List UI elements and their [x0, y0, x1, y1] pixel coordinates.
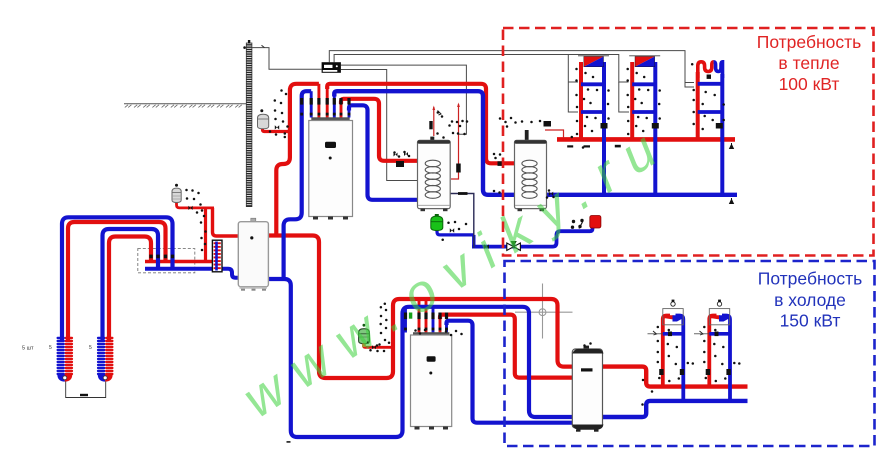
valve near vessel V1	[275, 125, 279, 129]
svg-text:5 шт: 5 шт	[22, 346, 34, 352]
arrow under blue main end	[730, 198, 734, 204]
red pipe HP1 to tank T1	[341, 99, 418, 161]
HP2 manifold unions	[404, 328, 448, 331]
svg-text:Потребность: Потребность	[758, 269, 863, 289]
valve near DHW pump	[579, 222, 583, 229]
blue manifold stub HP1 b	[333, 94, 336, 118]
red manifold stub HP1 b	[326, 86, 329, 118]
fittings heating circuit 2	[626, 68, 661, 136]
fittings heating circuit 3	[691, 63, 725, 130]
fittings left of HP2	[378, 303, 387, 346]
svg-text:в холоде: в холоде	[774, 290, 846, 310]
svg-text:Потребность: Потребность	[757, 32, 862, 52]
pump cooling unit 2 red riser	[706, 369, 710, 375]
label dash under red main 0	[567, 145, 573, 147]
pump on T2 sensor line	[544, 121, 552, 127]
blue rung cooling unit 2	[709, 332, 730, 336]
valves on brine header drops	[149, 255, 174, 259]
blue pipe separator to bottom loop and HP2	[268, 279, 573, 437]
dot under vessel V2 line	[196, 211, 199, 214]
DHW circulation pump red	[590, 216, 601, 229]
red pipe heat pump HP1 supply riser to separator	[276, 84, 319, 238]
svg-text:100 кВт: 100 кВт	[779, 74, 840, 94]
blue bypass rung circuit 3 lower	[698, 110, 723, 114]
red riser cooling unit 2	[709, 316, 716, 389]
junction dot on shaft wire	[243, 46, 246, 49]
blue pipe HP1 to tank T1	[349, 105, 418, 200]
pump on T1 sensor riser	[456, 164, 461, 173]
wire controller to consumer circuits lower	[334, 55, 628, 83]
hydraulic separator tank	[238, 218, 268, 291]
valve on shaft top	[248, 40, 250, 43]
blue manifold stub HP1 a	[310, 91, 313, 117]
red drop to brine line	[204, 208, 207, 261]
radiator serpentine blue half	[714, 62, 723, 78]
valve on red line to T2	[498, 161, 503, 166]
blue DHW drop stub	[472, 235, 475, 247]
pump on red line to T1	[396, 161, 404, 167]
fittings near DHW vessel	[441, 221, 467, 241]
pump cooling unit 1 red riser	[659, 369, 663, 375]
blue cooling return main	[602, 401, 748, 417]
pump cooling unit 2 blue riser	[726, 369, 730, 375]
red borehole header pair 1	[68, 222, 166, 340]
fittings cooling unit 1	[657, 326, 695, 383]
wire controller to heat pump HP1	[341, 70, 418, 181]
blue manifold stub HP2 b	[432, 307, 435, 333]
red pipe HP1 to tank T2	[327, 84, 514, 164]
text cold demand	[758, 269, 863, 331]
wire drop to circuit 3 lower valve	[685, 83, 694, 88]
red cooling supply main	[602, 367, 748, 387]
red pipe HP2 to buffer tank TB lower	[440, 315, 574, 378]
wire controller to shaft	[252, 48, 322, 70]
air handler circuit 1	[578, 56, 609, 67]
valve tank T2 right	[549, 192, 553, 196]
tank T2 with coil	[515, 130, 547, 211]
blue rung cooling unit 1	[663, 332, 684, 336]
red manifold stub HP2 b	[425, 299, 428, 333]
blue riser cooling unit 2	[722, 316, 730, 403]
valve near DHW vessel	[450, 228, 454, 232]
fittings cooling unit 2	[703, 326, 741, 383]
svg-text:150 кВт: 150 кВт	[780, 311, 841, 331]
HP2 manifold green valve	[409, 313, 412, 319]
blue bypass rung circuit 2 upper	[632, 82, 655, 86]
wire controller to tank T1 sensor	[341, 65, 467, 134]
blue DHW expansion vessel line	[437, 229, 474, 235]
blue DHW recirculation line to pump	[472, 226, 593, 247]
blue borehole header pair 2	[103, 229, 159, 340]
valve on safety line HP2	[372, 345, 376, 349]
fittings near buffer tank top	[583, 342, 653, 406]
buffer tank TB	[572, 346, 603, 432]
HP1 manifold shutoff valves	[300, 98, 351, 105]
heat pump HP2 cabinet	[411, 332, 452, 429]
fittings on safety line HP2	[367, 341, 391, 352]
tiny label below blue loop	[287, 441, 291, 443]
red pipe separator to heat pump HP2	[268, 236, 573, 379]
red manifold stub HP2 a	[418, 299, 421, 333]
red riser heating circuit 2	[630, 62, 634, 141]
blue manifold stub HP1 c	[348, 108, 351, 118]
air handler circuit 2	[629, 56, 660, 67]
red borehole header pair 2	[109, 237, 151, 341]
blue bypass rung circuit 2 lower	[632, 110, 655, 114]
red heating supply main	[557, 137, 735, 142]
wire drop to circuit 1 valve	[568, 55, 578, 113]
borehole probe 1	[57, 337, 74, 382]
pump circuit 2	[652, 123, 659, 129]
expansion vessel V2 grey	[172, 184, 181, 203]
heat pump HP1 cabinet	[309, 117, 353, 219]
borehole bottom link wire	[66, 382, 106, 398]
red pipe expansion vessel V1 connection	[263, 128, 290, 132]
arrow under red main end	[730, 143, 734, 149]
wire drop to circuit 2 lower valve	[619, 82, 629, 112]
fittings tank T2 right valves	[546, 189, 555, 199]
blue dashed demand box cold	[505, 261, 875, 446]
red pipe safety group at HP2 riser	[364, 345, 393, 347]
blue bypass rung circuit 3 upper	[698, 82, 723, 86]
red sensor line tank T2 to main	[545, 130, 564, 138]
blue pipe HP1 return to separator	[284, 91, 312, 280]
watermark www.oviky.ru	[233, 112, 681, 429]
tank T1 with coil	[418, 137, 451, 212]
navy sensor line tank T1 side	[451, 194, 474, 249]
red manifold stub HP2 c	[439, 315, 442, 333]
fittings above tank T1	[436, 111, 468, 139]
HP2 manifold shutoff valves	[404, 313, 448, 320]
label 5 pieces	[22, 345, 92, 352]
fittings on red main	[571, 136, 585, 149]
label dash under red main 1	[584, 145, 591, 147]
ground hatch marks	[125, 105, 242, 108]
borehole probe 2	[97, 337, 114, 382]
radiator serpentine red half	[698, 62, 714, 78]
valve on DHW line	[484, 244, 489, 249]
tick on shaft wire	[262, 45, 265, 47]
svg-text:5: 5	[89, 345, 92, 351]
fittings on red line to T1	[393, 151, 410, 158]
expansion vessel V1 grey	[258, 109, 269, 129]
blue bypass rung circuit 1 lower	[581, 110, 604, 114]
blue riser heating circuit 3	[720, 74, 724, 195]
blue pipe HP2 to buffer tank TB bottom	[447, 321, 573, 423]
fittings near vessel V2	[185, 189, 202, 206]
blue heating return main from HP1	[334, 91, 737, 195]
blue brine line to separator	[145, 269, 239, 278]
fittings left of HP1	[274, 89, 289, 136]
fittings near separator left	[200, 209, 207, 251]
controller unit	[322, 62, 341, 73]
red manifold stub HP1 a	[317, 84, 320, 118]
instrument line cooling unit 1	[648, 331, 673, 336]
red dashed demand box heat	[503, 28, 874, 256]
three-way valve	[507, 241, 521, 250]
valve on serpentine dip	[707, 75, 711, 79]
pump circuit 3	[716, 123, 723, 129]
red pipe to separator via heat exchanger	[213, 208, 240, 236]
blue riser heating circuit 1	[602, 62, 606, 195]
pump circuit 1	[601, 123, 608, 129]
pump cooling unit 1 blue riser	[680, 369, 684, 375]
fittings on blue main near T2	[493, 190, 501, 194]
fittings above HP2 right	[414, 329, 463, 337]
cooling expansion vessel green	[359, 324, 370, 347]
svg-text:в тепле: в тепле	[778, 53, 839, 73]
fan coil unit 2	[709, 300, 729, 325]
red vent pipe with arrow tank T1	[432, 106, 441, 137]
fan coil unit 1	[663, 300, 683, 325]
blue riser heating circuit 2	[653, 62, 657, 195]
fittings heating circuit 1	[575, 68, 610, 136]
red riser heating circuit 3	[696, 72, 700, 141]
borehole shaft hatched bar	[246, 43, 252, 207]
red manifold stub HP1 c	[340, 101, 343, 118]
instrument line cooling unit 2	[694, 331, 719, 336]
red pipe expansion vessel V2 line	[177, 202, 215, 208]
pump on navy line	[458, 192, 468, 195]
ground surface line	[124, 103, 247, 105]
wire controller to consumer circuits upper	[329, 51, 694, 83]
valve on vessel V2 line	[188, 206, 192, 210]
HP1 manifold unions	[300, 113, 350, 116]
valve on red line to T1 b	[404, 152, 408, 156]
blue manifold stub HP2 c	[445, 321, 448, 333]
dashed selection box around brine headers	[138, 249, 195, 273]
fittings above tank T2	[499, 117, 542, 128]
red sensor line tank T1	[451, 103, 460, 180]
blue borehole header pair 1	[62, 217, 173, 340]
crosshair centre mark	[515, 284, 573, 339]
DHW expansion vessel green	[431, 214, 443, 231]
plate heat exchanger	[212, 240, 222, 272]
pump on T1 vent riser	[429, 121, 432, 129]
red riser heating circuit 1	[579, 62, 583, 141]
blue bypass rung circuit 1 upper	[581, 82, 604, 86]
red brine line to heat exchanger	[145, 260, 214, 264]
svg-text:5: 5	[49, 345, 52, 351]
red riser cooling unit 1	[663, 316, 670, 389]
fittings near DHW pump	[571, 219, 584, 229]
valve on red line to T1 a	[394, 153, 398, 157]
fittings above red line T2	[493, 153, 502, 160]
label dash under red main 2	[615, 145, 621, 148]
blue riser cooling unit 1	[676, 316, 684, 403]
text heat demand	[757, 32, 862, 94]
blue manifold stub HP2 a	[404, 307, 407, 333]
fittings below vessel V1 line	[269, 130, 286, 138]
